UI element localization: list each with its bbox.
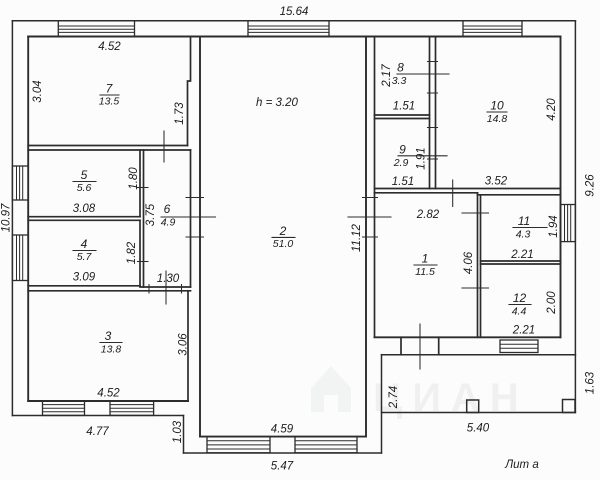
room 4 label bar [73,250,96,252]
corridor 6 bottom upper line [140,286,191,288]
svg-text:7: 7 [106,82,114,96]
outer wall left [11,21,13,416]
svg-text:12: 12 [513,291,527,305]
svg-text:4.9: 4.9 [161,217,176,229]
wall room4/6|room3 lower line [28,290,190,292]
building bottom outer wall at veranda [382,354,576,356]
veranda post left [467,400,479,413]
wall room8|room9 upper line [375,114,430,116]
svg-text:1.63: 1.63 [585,371,597,394]
svg-text:13.5: 13.5 [99,96,120,108]
svg-text:4.20: 4.20 [546,98,558,121]
svg-text:5.6: 5.6 [77,182,92,194]
door room1 to room12 [462,287,489,289]
svg-text:4.59: 4.59 [271,424,294,436]
outer wall right [574,21,576,413]
svg-text:5.40: 5.40 [467,423,490,435]
room 1 label bar [414,264,437,266]
room 12 label bar [509,304,531,306]
wall room4|room3 upper line [28,285,140,287]
svg-text:1.51: 1.51 [393,101,415,113]
inner wall top [28,36,560,38]
svg-text:5: 5 [81,168,88,182]
svg-text:2.82: 2.82 [416,209,440,221]
door room10 to room1 [452,180,454,207]
wall room11|room12 lower line [481,263,561,265]
room 7 label bar [100,94,119,96]
svg-text:2.21: 2.21 [512,325,535,337]
wall room8|room9 lower line [375,118,430,120]
door room2 to room1 opening line [348,216,391,218]
svg-text:11.5: 11.5 [415,266,435,278]
svg-text:4: 4 [81,237,88,251]
svg-text:4.3: 4.3 [516,229,531,241]
svg-text:1.51: 1.51 [392,176,414,188]
room 5 right wall face [139,150,141,217]
wall room1|rooms11,12 right face [480,195,482,337]
svg-text:14.8: 14.8 [487,113,508,125]
inner wall right [560,37,562,338]
svg-text:4.52: 4.52 [98,41,121,53]
room 2 bottom inner wall [200,436,366,438]
window right room 11 [561,205,576,242]
wall room5|room4 lower line [28,219,140,221]
door room1 to room11 [462,212,489,214]
svg-text:1.94: 1.94 [548,215,560,237]
room 4 right wall face [139,220,141,285]
svg-text:1.91: 1.91 [416,147,428,169]
entrance door jamb left [400,337,402,354]
svg-text:3.04: 3.04 [32,80,44,102]
veranda post right [563,400,576,413]
window bottom room 3 right [110,401,154,415]
room 2 left wall [199,37,201,437]
wall room8,9|room10 left face [429,37,431,189]
svg-text:11.12: 11.12 [351,223,363,252]
entrance door jamb right [438,337,440,354]
room 3 bottom inner wall [28,400,188,402]
door room8 to room10 jambs [428,62,438,94]
svg-text:15.64: 15.64 [280,6,309,18]
inner wall left [27,37,29,402]
room 11 label bar [513,227,547,229]
svg-text:1.82: 1.82 [126,241,138,264]
svg-text:2: 2 [279,224,287,238]
outer wall bottom-left [12,415,183,417]
svg-text:3.08: 3.08 [73,203,96,215]
svg-text:3.3: 3.3 [392,75,407,87]
svg-text:10: 10 [490,99,504,113]
outer wall top [12,20,575,22]
wall room5|room4 upper line [28,216,140,218]
svg-text:4.4: 4.4 [512,306,527,318]
svg-text:1.80: 1.80 [128,167,140,190]
window bottom room 2 right [295,437,357,453]
window top room 7 [58,21,134,37]
door room2 to room1 jamb caps [363,198,378,238]
door corridor6 to room2 opening line [161,216,216,218]
room 3 right wall face [187,291,189,401]
wall room7 bottom upper line [28,145,187,147]
wall room1|rooms11,12 left face [477,193,479,337]
wall room7|room2 face with jog [188,37,191,146]
svg-text:2.00: 2.00 [546,291,558,315]
svg-text:3: 3 [105,329,112,343]
svg-text:2.9: 2.9 [393,157,409,169]
svg-text:9: 9 [399,142,406,156]
door room4 to corridor6 [138,261,149,263]
svg-text:Лит а: Лит а [504,459,538,471]
window room 12 to veranda [500,340,538,353]
wall room8,9|room10 right face [435,37,437,189]
svg-text:1.30: 1.30 [157,273,180,285]
room 2 right wall [365,37,367,437]
door room7 to corridor6 [163,131,165,162]
window bottom room 3 left [43,401,85,415]
svg-text:4.06: 4.06 [463,251,475,274]
svg-text:3.52: 3.52 [485,176,508,188]
svg-text:4.52: 4.52 [97,388,120,400]
door room9 to room10 jambs [428,128,438,160]
svg-text:2.21: 2.21 [510,249,533,261]
entrance door center line [419,324,421,369]
outer wall bottom of room 2 section [184,452,382,454]
door corridor6 to room3 center line [165,271,167,304]
room 11 top wall line [478,194,561,196]
svg-text:11: 11 [518,214,530,228]
window bottom room 2 left [207,437,270,453]
room 2 label bar [272,236,295,238]
wall room2|rooms8,9,1 right face [374,37,376,338]
wall room11|room12 upper line [481,260,561,262]
window left room 5 [12,166,28,200]
window top room 10 [463,21,522,37]
svg-text:13.8: 13.8 [101,344,122,356]
svg-text:1: 1 [422,252,429,266]
rooms 1/12 bottom inner wall [375,336,561,338]
door room9 label bar line [398,155,447,157]
room 1 top wall line [375,192,478,194]
svg-text:8: 8 [397,61,404,75]
svg-text:9.26: 9.26 [585,174,597,197]
corridor 6 left wall face [143,150,145,287]
window top room 2 [248,21,329,37]
svg-text:10.97: 10.97 [1,203,13,232]
svg-text:4.77: 4.77 [86,426,109,438]
room 5 label bar [73,181,96,183]
svg-text:3.06: 3.06 [178,333,190,356]
rooms 9/10 bottom wall line [375,188,561,190]
svg-text:51.0: 51.0 [273,238,294,250]
outer wall right of room 2 section / veranda left edge [381,355,383,453]
wall room7 bottom lower line / corridor top [28,149,190,151]
svg-text:6: 6 [164,202,171,216]
svg-text:5.7: 5.7 [77,251,93,263]
window left room 4 [12,235,28,281]
door corridor6 to room3 jambs [149,285,182,294]
room 3 label bar [100,342,122,344]
watermark CIAN house icon [311,366,351,412]
veranda bottom edge [382,412,576,414]
svg-text:h = 3.20: h = 3.20 [256,97,298,109]
corridor 6 right wall face [190,150,192,287]
svg-text:3.09: 3.09 [73,272,96,284]
svg-text:3.75: 3.75 [145,203,157,226]
svg-text:2.74: 2.74 [388,386,400,409]
door room5 to corridor6 [138,187,149,189]
outer wall step down [183,416,185,454]
door room8 label bar line [397,73,449,75]
room 10 label bar [487,111,507,113]
svg-text:1.73: 1.73 [174,102,186,125]
svg-text:1.03: 1.03 [172,420,184,443]
svg-text:5.47: 5.47 [271,461,294,473]
door corridor6 to room2 jamb caps [186,198,204,238]
